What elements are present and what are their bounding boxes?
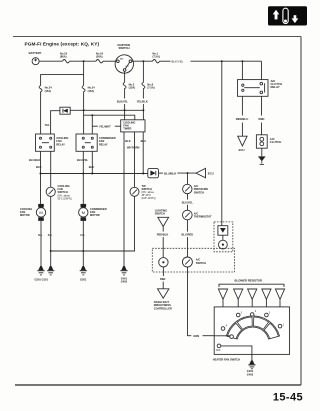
cooling fan switch label [58, 184, 72, 200]
junction node bus2 [83, 74, 85, 76]
svg-text:(ON : above: (ON : above [58, 195, 71, 197]
svg-text:BLU/YEL: BLU/YEL [77, 158, 89, 162]
wire label RED/BLK inline [157, 227, 169, 258]
A/C clutch coil box [256, 135, 267, 148]
connector triangle pin 2 [234, 289, 243, 313]
cooling fan relay label [56, 136, 68, 146]
wire fuse No.1 to label [160, 60, 171, 62]
svg-text:BLOWER RESISTOR: BLOWER RESISTOR [235, 278, 262, 282]
ground label G401 G402 [121, 277, 128, 284]
wire relay to RED/BLU [241, 96, 243, 115]
junction node at x83.6 [83, 60, 85, 62]
svg-text:BLK/YEL: BLK/YEL [172, 59, 184, 63]
fuse No.2 15A [123, 82, 135, 90]
junction node ground bus motor2 [82, 250, 84, 252]
bus1 wire to ECU arrow [41, 173, 148, 175]
wire relay1 right to cooling fan switch [50, 151, 52, 187]
svg-text:BLU/BLK: BLU/BLK [29, 158, 41, 162]
ground G101 switch1 [47, 266, 54, 275]
wire fuse to cooling fan relay [40, 95, 42, 135]
wire RED to A/C clutch [261, 123, 263, 135]
junction node line1 fuse2 [83, 109, 85, 111]
junction node fuse4 branch [142, 60, 144, 62]
wire YEL/WHT to timer [92, 124, 120, 128]
wire label RED inline [160, 267, 166, 289]
wire A/C switch to heater fan switch GRN [188, 267, 216, 338]
bus wire battery branch [41, 61, 84, 85]
timer pin WHT/GRN drop to TW switch [127, 132, 140, 187]
svg-text:15-45: 15-45 [273, 392, 303, 404]
ground label G401 G402 heater [247, 369, 254, 376]
connector triangle pin 3 [248, 289, 257, 313]
terminal 3b [265, 311, 271, 316]
wire label BLU/RED inline [182, 220, 194, 257]
long wire A/C switch feed [221, 61, 223, 226]
svg-text:(15A): (15A) [88, 89, 95, 93]
wire cooling fan switch to ground bus [50, 196, 52, 268]
svg-text:BATTERY: BATTERY [29, 51, 42, 55]
rotary switch arc base [226, 316, 279, 339]
svg-text:(80A): (80A) [60, 55, 67, 59]
junction node relay feed [241, 60, 243, 62]
A/C thermostat label [194, 211, 212, 218]
svg-text:RED: RED [259, 117, 265, 121]
svg-text:SWITCH: SWITCH [196, 261, 206, 265]
wire relay contact drop [261, 61, 263, 79]
wire battery to fuse80A [39, 60, 62, 62]
svg-text:93°C (199°F)): 93°C (199°F)) [58, 198, 72, 200]
svg-text:G201 G101: G201 G101 [35, 278, 49, 282]
junction node bus1 relay2 col [91, 173, 93, 175]
wire relay to RED [261, 96, 263, 115]
fuse No.16 80A [60, 52, 70, 63]
svg-text:BLU/YEL: BLU/YEL [182, 200, 194, 204]
svg-text:BLK: BLK [38, 235, 43, 237]
svg-text:RELAY: RELAY [271, 85, 280, 89]
condenser fan motor label [90, 207, 107, 217]
ECU connector triangle [238, 136, 247, 152]
ECU connector triangle right [196, 168, 214, 177]
page top border [13, 36, 301, 38]
svg-text:BLU/BLK: BLU/BLK [164, 171, 176, 175]
small dashed box A/C switch lamp [214, 222, 233, 252]
rotary switch arc segment 2 [237, 317, 252, 329]
svg-text:G401: G401 [247, 369, 254, 373]
svg-text:GRN: GRN [193, 334, 199, 338]
OFF terminal [216, 344, 221, 352]
wire to A/C switch bulb [222, 235, 224, 240]
svg-text:BLK/YEL: BLK/YEL [117, 100, 129, 104]
junction node bus1 motor2 col [82, 173, 84, 175]
dashlight controller connector triangle [158, 289, 169, 298]
svg-text:SWITCH: SWITCH [119, 46, 130, 50]
illumination bulb [159, 258, 168, 267]
svg-text:BLU/RED: BLU/RED [182, 233, 194, 237]
cooling fan motor label [20, 207, 32, 217]
cooling fan motor M1 [36, 204, 45, 221]
timer pin BLK drop [124, 132, 131, 269]
svg-text:MOTOR: MOTOR [90, 213, 100, 217]
scroll widget down arrow [292, 15, 299, 23]
wire clutch to ground [261, 148, 263, 156]
junction node pressure switch branch [187, 172, 189, 174]
svg-text:ECU: ECU [208, 171, 214, 175]
svg-text:YEL/WHT: YEL/WHT [99, 124, 111, 128]
fuse No.8 7.5A [142, 82, 155, 90]
TW switch [130, 187, 139, 196]
A/C clutch relay label [271, 79, 283, 89]
svg-text:(15A): (15A) [129, 86, 136, 90]
wire label YEL/BLK column G [137, 91, 148, 104]
wire label BLU/BLK inline [159, 171, 197, 175]
svg-text:M: M [82, 210, 85, 215]
wire ignition to fuse No.1 [132, 60, 153, 62]
svg-text:M: M [39, 210, 42, 215]
svg-text:BLK: BLK [48, 235, 53, 237]
diode D1 [60, 107, 70, 114]
A/C clutch relay box [238, 80, 269, 97]
wire fuse No.2 to timer [124, 104, 126, 120]
A/C thermostat [183, 210, 193, 220]
A/C switch label [196, 258, 206, 265]
lighting switch label [155, 208, 167, 215]
wire ignition IG1 drop [124, 71, 126, 82]
ignition switch SW1 [115, 43, 133, 73]
wire BLK/YEL to relay branch [191, 60, 262, 62]
fuse No.24 15A column A [39, 86, 52, 95]
svg-text:PGM-FI Engine (except: KQ, KY): PGM-FI Engine (except: KQ, KY) [25, 41, 100, 46]
svg-text:BLK: BLK [125, 139, 130, 143]
wire fuse No.8 to timer [142, 104, 144, 120]
terminal 1 [278, 324, 285, 328]
wire relay2 right to bus1 [91, 151, 93, 173]
A/C switch contact [182, 257, 192, 267]
wire OFF to ground [221, 346, 252, 361]
svg-text:(100°-104°F)): (100°-104°F)) [142, 198, 156, 200]
svg-text:RED/BLU: RED/BLU [236, 117, 248, 121]
svg-text:ECU: ECU [239, 148, 245, 152]
svg-text:CONTROLLER: CONTROLLER [154, 306, 172, 310]
condenser fan relay label [99, 136, 116, 146]
cooling fan timer box [121, 120, 145, 132]
cooling fan relay box [36, 134, 55, 151]
connector arrow box right [148, 168, 159, 177]
wire bus line2 to timer [84, 115, 135, 120]
heater fan switch box [214, 307, 289, 355]
blower resistor bracket [219, 284, 284, 287]
junction node line1 fuse4 [142, 109, 144, 111]
svg-text:SWITCH: SWITCH [155, 212, 165, 216]
junction node A/C switch feed [221, 60, 223, 62]
svg-text:MOTOR: MOTOR [20, 213, 30, 217]
fuse No.1 7.5A [153, 52, 160, 63]
svg-text:HEATER FAN SWITCH: HEATER FAN SWITCH [213, 357, 240, 361]
A/C pressure switch label [194, 184, 209, 194]
wire fuse to condenser fan relay [83, 95, 85, 135]
svg-text:G201: G201 [80, 278, 87, 282]
junction node bus1 timer BLU col [142, 173, 144, 175]
svg-text:OFF: OFF [216, 349, 221, 352]
wire motor2 to ground [82, 221, 84, 269]
svg-text:YEL/BLK: YEL/BLK [137, 100, 148, 104]
wire diode bus line1 [70, 109, 143, 111]
svg-text:RED: RED [160, 277, 166, 281]
svg-text:RELAY: RELAY [56, 142, 65, 146]
svg-text:IG1: IG1 [126, 66, 129, 68]
A/C switch bulb [219, 240, 228, 249]
svg-text:G402: G402 [121, 280, 128, 284]
condenser fan relay box [76, 134, 97, 151]
wire battery feed column C [83, 75, 85, 86]
diode box in A/C switch [218, 226, 228, 236]
svg-text:WHT/GRN: WHT/GRN [127, 146, 140, 150]
terminal 3 [236, 311, 242, 316]
wire label BLK/YEL column E [117, 91, 129, 104]
junction node line2 relay2 coil [91, 114, 93, 116]
ground heater fan switch [248, 360, 255, 368]
terminal 2 [250, 310, 256, 316]
wire TW switch to ground bus corner [51, 196, 135, 251]
svg-text:YEL: YEL [44, 123, 49, 127]
fuse No.24 15A column C [82, 86, 95, 95]
svg-text:THERMOSTAT: THERMOSTAT [194, 215, 212, 219]
ground under A/C clutch [258, 156, 266, 164]
svg-text:(ON : above: (ON : above [142, 192, 155, 194]
wire diode to relay1 YEL [44, 111, 59, 134]
connector triangle pin 5 [275, 289, 284, 324]
svg-text:38°-40°C: 38°-40°C [142, 195, 152, 197]
big dashed box A/C switch assembly [152, 248, 234, 272]
wire fuse50A to ignition switch [103, 60, 117, 62]
battery B1 [29, 51, 42, 64]
page right border [300, 37, 302, 386]
rotary switch arc segment 4 [264, 323, 278, 339]
condenser fan motor M2 [79, 204, 88, 221]
svg-text:TIMER: TIMER [123, 127, 131, 131]
wire ignition branch column G [142, 61, 144, 82]
TW switch label [142, 184, 156, 200]
scroll widget panel [268, 6, 307, 25]
page bottom border [15, 384, 301, 386]
svg-text:RELAY: RELAY [99, 142, 108, 146]
wire RED/BLU to ECU connector [241, 123, 243, 137]
wire relay1 left to motor1 [40, 151, 42, 204]
scroll widget up arrow [273, 10, 280, 20]
wire relay coil drop [241, 61, 243, 79]
svg-text:G402: G402 [247, 373, 254, 377]
wire label BLU/YEL inline [182, 194, 194, 211]
svg-text:SWITCH: SWITCH [194, 190, 204, 194]
wire pressure switch branch [187, 173, 189, 184]
A/C pressure switch [183, 184, 192, 193]
junction node bus1 left [40, 173, 42, 175]
terminal 4 [221, 325, 228, 331]
ground G201 motor2 [80, 266, 87, 275]
wire relay2 coil drop [91, 115, 93, 134]
svg-text:BLU: BLU [89, 165, 94, 169]
junction node line1 fuse3 [124, 109, 126, 111]
svg-text:(15A): (15A) [45, 89, 52, 93]
connector triangle pin 4 [262, 289, 271, 313]
timer pin BLU drop [141, 132, 146, 174]
svg-text:SWITCH: SWITCH [58, 190, 68, 194]
junction node ground bus left [50, 250, 52, 252]
svg-text:BLU: BLU [36, 165, 41, 169]
ground G401 timer BLK [120, 266, 127, 275]
wire relay2 left to motor2 [82, 151, 84, 204]
cooling fan switch [46, 187, 55, 196]
svg-text:RED/BLK: RED/BLK [157, 233, 169, 237]
A/C clutch label [270, 137, 282, 144]
rotary switch arc segment 1 [227, 323, 241, 339]
rotary wiper contact [214, 335, 233, 339]
svg-text:SWITCH: SWITCH [142, 187, 152, 191]
dashlight brightness controller label [154, 300, 172, 310]
svg-text:BLU: BLU [141, 139, 146, 143]
svg-text:(50A): (50A) [96, 55, 103, 59]
wire motor1 to ground [40, 221, 42, 269]
lighting switch connector triangle [158, 217, 169, 226]
ground G201 motor1 [37, 266, 44, 275]
rotary switch arc segment 3 [254, 317, 269, 329]
svg-text:BLK: BLK [80, 235, 85, 237]
wire fuse80A to fuse50A [70, 60, 97, 62]
connector triangle pin 1 [218, 289, 227, 327]
fuse No.16 50A [96, 52, 104, 63]
scroll widget thermometer handle [283, 8, 288, 23]
svg-text:CLUTCH: CLUTCH [270, 140, 282, 144]
svg-text:(7.5A): (7.5A) [153, 55, 160, 59]
svg-text:(7.5A): (7.5A) [147, 86, 154, 90]
